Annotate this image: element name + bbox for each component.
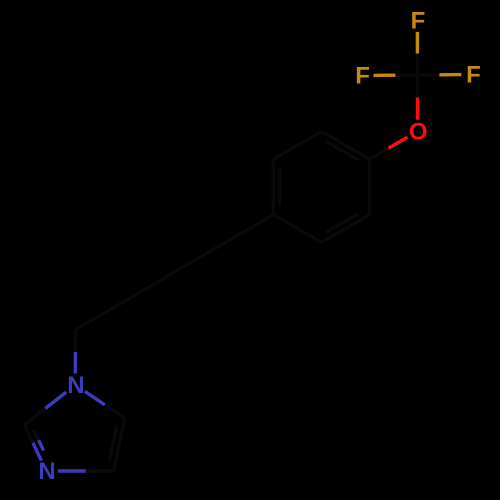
svg-text:F: F	[411, 8, 426, 35]
wire bond C6r-C5r	[273, 131, 321, 159]
wire bond C5r-C4r	[272, 159, 275, 215]
wire bond C2r-C1r	[368, 159, 371, 215]
wire bond X1-X2	[125, 272, 174, 301]
svg-text:N: N	[38, 458, 55, 485]
wire bond C1r-O	[370, 148, 389, 159]
wire bond C2-N3	[24, 425, 33, 443]
wire bond O-Cf	[416, 97, 420, 119]
wire bond C1r-C6r	[321, 131, 369, 159]
wire bond Cf-Fl	[395, 73, 417, 77]
svg-text:O: O	[409, 118, 428, 145]
wire bond C4r-C3r	[273, 215, 321, 243]
wire bond B-X1	[76, 301, 126, 330]
wire bond C3r-C2r	[321, 215, 369, 243]
wire bond Cf-Ft	[416, 54, 419, 76]
wire bond N3-C4i	[58, 469, 86, 472]
svg-text:F: F	[355, 63, 370, 90]
wire bond Cf-Fr	[417, 73, 439, 77]
wire bond C5i-N1	[105, 405, 125, 418]
svg-text:N: N	[67, 372, 84, 399]
wire bond N1-B	[74, 352, 77, 374]
wire bond N1-C2	[45, 392, 66, 408]
wire bond X3-C4r	[224, 215, 273, 244]
wire bond X2-X3	[174, 243, 223, 272]
wire bond C4i-C5i	[114, 418, 125, 471]
svg-text:F: F	[466, 62, 481, 89]
